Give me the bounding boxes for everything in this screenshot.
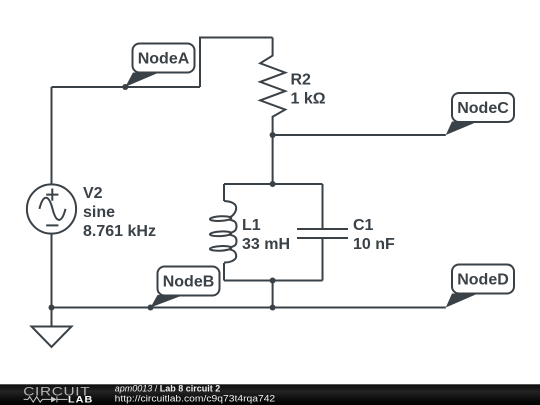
wire top horizontal from NodeA corner to R2 top xyxy=(200,38,273,88)
wire NodeC horizontal xyxy=(273,134,446,136)
node label NodeC xyxy=(446,93,514,135)
wire LC top horizontal xyxy=(224,183,323,185)
svg-text:http://circuitlab.com/c9q73t4r: http://circuitlab.com/c9q73t4rqa742 xyxy=(115,393,276,403)
capacitor C1 xyxy=(297,184,348,281)
ground xyxy=(32,327,72,348)
svg-text:V2: V2 xyxy=(83,185,103,202)
svg-text:NodeB: NodeB xyxy=(163,274,215,291)
capacitor C1 labels xyxy=(353,217,395,253)
svg-text:10 nF: 10 nF xyxy=(353,236,395,253)
voltage source V2 labels xyxy=(83,185,156,240)
wire LC bottom horizontal xyxy=(224,280,323,282)
svg-text:NodeC: NodeC xyxy=(457,100,509,117)
junction dot R2 bottom xyxy=(270,132,276,138)
wire inductor top lead xyxy=(223,184,225,201)
junction dot LC top xyxy=(270,181,276,187)
wire NodeA horizontal xyxy=(52,86,201,88)
junction dot NodeA attach xyxy=(122,84,128,90)
wire left vertical below V2 xyxy=(51,234,53,308)
wire inductor bottom lead xyxy=(223,263,225,281)
svg-text:NodeA: NodeA xyxy=(138,51,190,68)
inductor L1 xyxy=(210,201,237,262)
svg-text:sine: sine xyxy=(83,204,115,221)
junction dot ground xyxy=(49,305,55,311)
resistor R2 labels xyxy=(291,72,326,108)
footer bar xyxy=(0,384,540,405)
inductor L1 labels xyxy=(242,217,290,253)
svg-text:L1: L1 xyxy=(242,217,261,234)
svg-text:33 mH: 33 mH xyxy=(242,236,290,253)
node label NodeB xyxy=(151,267,220,308)
wire left vertical above V2 xyxy=(51,87,53,185)
wire LC bottom to bottom wire xyxy=(272,281,274,308)
wire ground stem xyxy=(51,308,53,327)
CircuitLab logo zigzag and diode xyxy=(24,396,68,402)
svg-text:NodeD: NodeD xyxy=(457,272,509,289)
resistor R2 xyxy=(260,38,285,136)
svg-text:C1: C1 xyxy=(353,217,374,234)
svg-text:8.761 kHz: 8.761 kHz xyxy=(83,223,156,240)
junction dot bottom wire center xyxy=(270,305,276,311)
svg-text:LAB: LAB xyxy=(68,395,93,405)
wire bottom horizontal xyxy=(52,307,446,309)
svg-text:R2: R2 xyxy=(291,72,312,89)
wire R2 bottom to LC top xyxy=(272,135,274,184)
node label NodeA xyxy=(125,44,194,87)
node label NodeD xyxy=(446,265,514,308)
svg-text:1 kΩ: 1 kΩ xyxy=(291,91,326,108)
voltage source V2 xyxy=(27,184,76,233)
junction dot NodeB attach xyxy=(148,305,154,311)
svg-text:apm0013 / Lab 8 circuit 2: apm0013 / Lab 8 circuit 2 xyxy=(115,383,221,393)
junction dot LC bottom xyxy=(270,278,276,284)
